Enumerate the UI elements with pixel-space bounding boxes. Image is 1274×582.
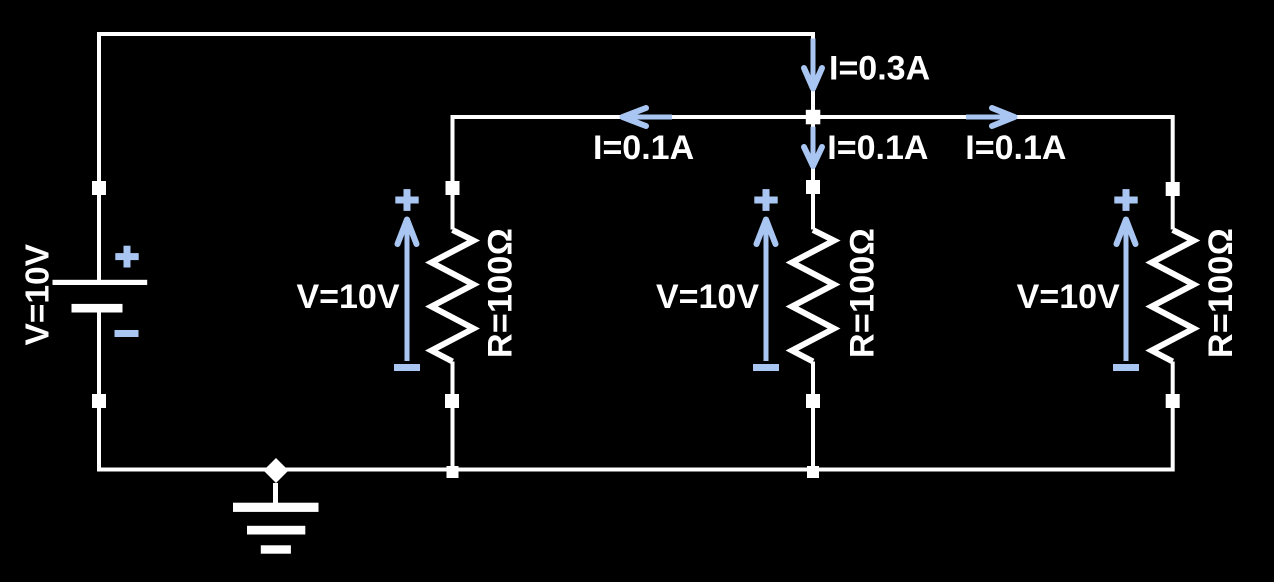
junction R1 at bottom rail	[447, 466, 459, 478]
current arrow I=0.3A (down, into junction)	[804, 39, 822, 89]
svg-text:R=100Ω: R=100Ω	[1202, 228, 1240, 358]
R1 voltage arrow	[398, 220, 417, 362]
node R2 top	[806, 180, 820, 194]
node R3 top	[1166, 182, 1180, 196]
ground bar 2	[247, 526, 305, 535]
svg-text:V=10V: V=10V	[656, 278, 759, 316]
current arrow I=0.1A (right)	[966, 108, 1015, 126]
R2 voltage arrow	[757, 220, 776, 362]
current arrow I=0.1A (left)	[623, 108, 673, 126]
ground stem	[273, 483, 278, 503]
wire: middle rail from R1 top, across, down to R3 zigzag	[453, 117, 1173, 230]
battery minus	[115, 330, 139, 337]
svg-text:R=100Ω: R=100Ω	[843, 228, 881, 358]
node battery top	[92, 181, 106, 195]
current arrow I=0.1A (down, below junction)	[804, 127, 822, 166]
R3 minus	[1113, 364, 1139, 371]
node battery bottom	[92, 394, 106, 408]
svg-text:I=0.3A: I=0.3A	[829, 50, 930, 88]
node R2 bottom	[806, 394, 820, 408]
junction node at middle rail	[806, 110, 821, 125]
svg-text:R=100Ω: R=100Ω	[482, 228, 520, 358]
battery plus	[115, 246, 138, 268]
wire: R1 bottom lead	[451, 362, 455, 470]
node R1 bottom	[445, 394, 459, 408]
R2 minus	[753, 364, 779, 371]
svg-text:V=10V: V=10V	[1017, 278, 1120, 316]
ground bar 1	[233, 503, 319, 512]
svg-text:V=10V: V=10V	[296, 278, 399, 316]
svg-text:I=0.1A: I=0.1A	[827, 129, 928, 167]
resistor R3 zigzag	[1152, 230, 1194, 362]
wire: bottom rail from battery bottom, across, up to R3 zigzag bottom	[99, 312, 1173, 470]
R3 voltage arrow	[1117, 220, 1136, 362]
node R1 top	[446, 181, 460, 195]
resistor R1 zigzag	[432, 230, 474, 362]
ground junction diamond	[264, 458, 289, 483]
R1 plus	[395, 189, 418, 211]
R2 plus	[754, 189, 777, 211]
resistor R2 zigzag	[792, 230, 834, 362]
wire: top loop from battery top plate, across top, down to R2 zigzag	[99, 34, 813, 280]
svg-text:V=10V: V=10V	[20, 243, 57, 345]
svg-text:I=0.1A: I=0.1A	[965, 129, 1066, 167]
battery V1 plates	[53, 280, 148, 285]
wire: R2 bottom lead	[811, 362, 815, 470]
svg-text:I=0.1A: I=0.1A	[593, 129, 694, 167]
ground bar 3	[261, 545, 291, 553]
junction R2 at bottom rail	[807, 466, 819, 478]
R3 plus	[1114, 189, 1137, 211]
R1 minus	[394, 364, 420, 371]
node R3 bottom	[1166, 394, 1180, 408]
